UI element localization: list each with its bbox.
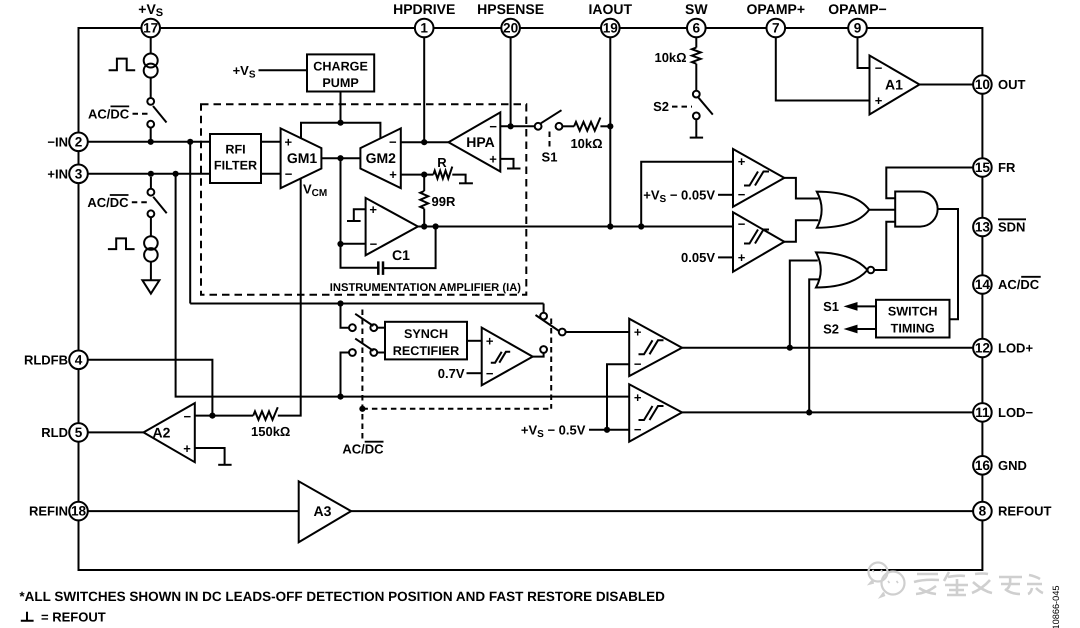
wire OR out to AND	[869, 209, 895, 211]
op-amp A3	[299, 481, 351, 542]
wire A2 - to 150k	[195, 415, 253, 417]
op-amp GM2	[360, 128, 400, 188]
refout symbol at HPA +	[507, 168, 521, 170]
op-amp A2	[144, 403, 195, 462]
svg-text:8: 8	[979, 504, 987, 519]
svg-text:99R: 99R	[432, 194, 456, 209]
svg-text:−: −	[184, 409, 192, 424]
junction C1 - input	[337, 241, 343, 247]
pin 2 -IN	[69, 133, 88, 152]
pin 9 OPAMP-	[848, 19, 867, 38]
wire RLDFB to A2 -	[88, 360, 212, 416]
svg-text:SW: SW	[685, 1, 708, 17]
junction -IN/switch	[148, 139, 154, 145]
wire R node down	[423, 175, 425, 191]
svg-text:AC/DC: AC/DC	[998, 277, 1040, 292]
svg-text:A1: A1	[885, 76, 903, 92]
wire junction down to switch A	[341, 304, 350, 328]
resistor 99R	[420, 191, 428, 209]
junction +IN/sense	[173, 171, 179, 177]
wire NOR top input	[790, 261, 818, 348]
wire A3 out to REFOUT pin	[351, 510, 973, 512]
svg-text:R: R	[437, 155, 447, 170]
control dashed to SPDT	[550, 319, 552, 409]
comparator CMP5 0.7V	[482, 328, 533, 386]
svg-text:9: 9	[854, 21, 862, 36]
wire RLD to A2	[88, 431, 144, 433]
svg-text:6: 6	[693, 21, 701, 36]
pin 14 AC/DC	[973, 275, 992, 294]
svg-text:+: +	[489, 152, 497, 167]
wire GM1 out to GM2 in	[321, 157, 360, 159]
pin 10 OUT	[973, 75, 992, 94]
svg-text:GM1: GM1	[287, 150, 318, 166]
svg-text:OUT: OUT	[998, 77, 1026, 92]
svg-text:CHARGE: CHARGE	[313, 59, 368, 73]
svg-text:FILTER: FILTER	[214, 159, 257, 173]
pin 12 LOD+	[973, 339, 992, 358]
svg-text:+VS − 0.5V: +VS − 0.5V	[521, 422, 586, 440]
svg-text:10kΩ: 10kΩ	[654, 50, 686, 65]
wire A1 out to OUT pin	[920, 84, 974, 86]
pin 15 FR	[973, 158, 992, 177]
junction NOR/LOD- row	[806, 409, 812, 415]
junction +IN/switch	[148, 171, 154, 177]
svg-text:−: −	[489, 119, 497, 134]
svg-text:14: 14	[975, 277, 991, 292]
control dashed vertical at switches	[361, 310, 363, 440]
wire RFI to GM1 +	[261, 141, 281, 143]
wire GM2 - out to HPA	[401, 141, 449, 143]
resistor R	[433, 167, 452, 179]
junction R node	[421, 172, 427, 178]
pin 18 REFIN	[69, 502, 88, 521]
resistor 10k ohm horizontal	[574, 117, 600, 130]
watermark characters	[914, 572, 1043, 595]
junction IAOUT/10k	[607, 123, 613, 129]
svg-text:−: −	[738, 216, 746, 231]
junction A2 - node	[209, 413, 215, 419]
wire RFI to GM1 -	[261, 173, 281, 175]
wire REFIN to A3	[88, 510, 299, 512]
wire 0.7V stub	[467, 372, 482, 374]
junction HPSENSE node	[508, 123, 514, 129]
wire NOR bottom input	[809, 279, 819, 412]
svg-text:−: −	[634, 357, 642, 372]
pulse symbol lower	[108, 238, 135, 249]
wire S2 to refout symbol	[695, 119, 697, 137]
IA dashed boundary	[201, 104, 526, 294]
junction sense row / synch	[337, 300, 343, 306]
junction control dashed	[359, 406, 365, 412]
pin 20 HPSENSE	[501, 19, 520, 38]
svg-text:−: −	[634, 422, 642, 437]
pin 8 REFOUT	[973, 502, 992, 521]
wire switch B to synch box	[377, 352, 385, 354]
IC boundary frame	[79, 28, 983, 570]
wire +Vs-0.05V stub	[718, 194, 733, 196]
down arrow terminal	[142, 280, 159, 293]
svg-text:−: −	[486, 366, 494, 381]
wire IA output row	[418, 226, 733, 228]
wire HPA - to S1	[500, 125, 534, 127]
svg-text:SWITCH: SWITCH	[888, 305, 938, 319]
svg-text:HPSENSE: HPSENSE	[477, 1, 544, 17]
svg-text:GND: GND	[998, 458, 1027, 473]
wire 10k to S2	[695, 64, 697, 91]
svg-text:11: 11	[975, 405, 990, 420]
wire CMP3 out to LOD+ pin	[682, 347, 973, 349]
svg-text:13: 13	[975, 220, 991, 235]
svg-text:+: +	[369, 202, 377, 217]
pin 17 +Vs	[141, 19, 160, 38]
watermark logo	[869, 563, 905, 597]
resistor 150k ohm	[253, 407, 278, 420]
junction comp1 net / IA out row	[638, 223, 644, 229]
svg-text:+: +	[389, 167, 397, 182]
svg-text:−: −	[875, 61, 883, 76]
wire GM mid down to C1 -	[341, 158, 379, 268]
wire +IN electrode line	[88, 173, 210, 175]
svg-text:A2: A2	[153, 424, 171, 440]
wire synch box to CMP5	[467, 340, 482, 342]
svg-text:+: +	[738, 154, 746, 169]
OR gate U2	[817, 192, 869, 228]
svg-text:150kΩ: 150kΩ	[251, 424, 290, 439]
svg-text:OPAMP+: OPAMP+	[747, 1, 805, 17]
svg-text:15: 15	[975, 160, 991, 175]
switch S1	[535, 123, 542, 130]
svg-text:RLD: RLD	[41, 425, 68, 440]
svg-text:S1: S1	[542, 150, 558, 165]
svg-text:RFI: RFI	[225, 143, 245, 157]
switch synch A	[349, 324, 356, 331]
svg-text:+: +	[183, 441, 191, 456]
switch timing box	[876, 300, 950, 338]
pin 3 +IN	[69, 165, 88, 184]
pin 4 RLDFB	[69, 351, 88, 370]
pin 6 SW	[687, 19, 706, 38]
svg-text:17: 17	[143, 21, 158, 36]
wire I1 to switch	[150, 78, 152, 98]
svg-text:−IN: −IN	[47, 134, 68, 149]
refout symbol at R	[459, 182, 473, 184]
svg-text:3: 3	[75, 166, 83, 181]
svg-text:RLDFB: RLDFB	[24, 352, 68, 367]
wire -IN electrode line	[88, 141, 210, 143]
svg-text:OPAMP−: OPAMP−	[828, 1, 886, 17]
wire C1 - input	[341, 243, 366, 245]
switch S2	[693, 91, 700, 98]
svg-text:AC/DC: AC/DC	[342, 442, 384, 457]
refout symbol at A2 +	[218, 464, 231, 466]
svg-text:4: 4	[75, 352, 83, 367]
switch AC/DC upper	[147, 98, 154, 105]
comparator CMP2	[733, 212, 784, 272]
pin 19 IAOUT	[601, 19, 620, 38]
svg-text:REFIN: REFIN	[29, 504, 68, 519]
svg-text:C1: C1	[392, 247, 410, 263]
junction +IN sense row	[337, 394, 343, 400]
refout symbol at S2	[690, 137, 703, 139]
junction bias net	[604, 427, 610, 433]
op-amp C1 integrator	[366, 198, 418, 255]
wire comp1 + input network	[641, 162, 733, 227]
svg-text:10: 10	[975, 77, 990, 92]
svg-text:16: 16	[975, 458, 991, 473]
svg-text:2: 2	[75, 134, 83, 149]
switch AC/DC lower	[148, 189, 155, 196]
svg-text:5: 5	[75, 425, 83, 440]
wire IAOUT vertical	[609, 37, 611, 226]
wire bias to CMP3 -	[607, 364, 629, 430]
wire R to refout symbol	[452, 175, 465, 184]
junction GM mid	[337, 155, 343, 161]
svg-text:FR: FR	[998, 160, 1016, 175]
arrow S1	[857, 305, 876, 307]
comparator CMP1	[733, 149, 784, 207]
wire I2 to arrow	[150, 262, 152, 281]
svg-text:+: +	[738, 250, 746, 265]
control dashed horizontal	[362, 408, 551, 410]
wire +IN sense vertical	[176, 174, 630, 397]
charge pump box	[307, 54, 374, 91]
svg-text:AC/DC: AC/DC	[88, 106, 130, 121]
svg-text:HPDRIVE: HPDRIVE	[393, 1, 455, 17]
wire pin17 to current source I1	[150, 37, 152, 53]
svg-text:+: +	[285, 134, 293, 149]
RFI filter box	[210, 134, 261, 183]
junction NOR/LOD+ row	[787, 345, 793, 351]
pin 7 OPAMP+	[767, 19, 786, 38]
svg-text:10866-045: 10866-045	[1051, 586, 1061, 628]
svg-text:+: +	[875, 93, 883, 108]
svg-text:19: 19	[603, 21, 619, 36]
junction HPDRIVE node	[421, 139, 427, 145]
junction capacitor/C1 out	[433, 223, 439, 229]
svg-text:SYNCH: SYNCH	[404, 327, 448, 341]
svg-text:AC/DC: AC/DC	[87, 195, 129, 210]
svg-text:18: 18	[71, 504, 87, 519]
svg-text:+: +	[634, 325, 642, 340]
op-amp A1	[870, 56, 920, 115]
svg-text:20: 20	[503, 21, 518, 36]
AND gate U3	[895, 192, 937, 227]
wire GM2 + out to R	[401, 174, 434, 176]
wire +Vs to charge pump	[259, 69, 308, 71]
wire A2 + to refout symbol	[195, 448, 225, 465]
svg-text:1: 1	[420, 21, 428, 36]
svg-text:7: 7	[772, 21, 780, 36]
capacitor C1	[378, 261, 383, 275]
pin 11 LOD-	[973, 403, 992, 422]
wire CMP1 out to OR	[784, 178, 818, 199]
wire SW pin down	[695, 37, 697, 47]
wire +Vs-0.5V to CMP4 -	[589, 429, 629, 431]
pin 1 HPDRIVE	[415, 19, 434, 38]
junction IAOUT/IA out row	[607, 223, 613, 229]
wire NOR out to AND input	[875, 222, 896, 270]
svg-text:LOD+: LOD+	[998, 341, 1033, 356]
wire switch to node -IN	[150, 128, 152, 142]
svg-text:INSTRUMENTATION AMPLIFIER (IA): INSTRUMENTATION AMPLIFIER (IA)	[330, 282, 521, 294]
NOR gate U4	[816, 252, 868, 287]
op-amp GM1	[281, 128, 322, 188]
svg-text:HPA: HPA	[466, 134, 495, 150]
wire HPSENSE vertical	[510, 37, 512, 126]
pin 16 GND	[973, 456, 992, 475]
refout symbol at C1 +	[347, 220, 361, 222]
svg-text:+: +	[486, 333, 494, 348]
wire node to lower switch	[150, 177, 152, 189]
svg-text:+VS − 0.05V: +VS − 0.05V	[643, 187, 715, 205]
svg-text:−: −	[738, 187, 746, 202]
pin 13 SDN	[973, 218, 992, 237]
wire capacitor to C1 out	[383, 227, 436, 269]
svg-text:SDN: SDN	[998, 220, 1025, 235]
wire charge pump to IA	[340, 92, 342, 123]
svg-text:+IN: +IN	[47, 166, 68, 181]
wire OPAMP+ to A1 +	[776, 37, 870, 100]
wire C1 + input to refout symbol	[354, 209, 366, 221]
svg-text:TIMING: TIMING	[891, 322, 935, 336]
current source I2	[144, 236, 158, 250]
wire switch A to synch box	[377, 327, 385, 329]
svg-text:−: −	[285, 166, 293, 181]
wire SPDT common to CMP3 +	[566, 331, 630, 333]
svg-text:IAOUT: IAOUT	[589, 1, 633, 17]
svg-text:PUMP: PUMP	[322, 76, 358, 90]
wire switch B to +IN sense row	[341, 353, 350, 397]
svg-text:S2: S2	[653, 99, 669, 114]
label S1 near switch	[549, 132, 551, 149]
svg-text:−: −	[389, 134, 397, 149]
wire switch to current source I2	[150, 217, 152, 236]
comparator CMP4 LOD-	[629, 384, 682, 441]
wire 99R to IA out	[423, 209, 425, 227]
wire OPAMP- to A1 -	[858, 37, 870, 68]
svg-text:0.7V: 0.7V	[438, 366, 465, 381]
wire FR to AND input	[886, 168, 973, 199]
wire CMP4 out to LOD- pin	[682, 411, 973, 413]
pin 5 RLD	[69, 423, 88, 442]
pulse symbol upper	[109, 59, 136, 71]
wire 0.05V stub	[718, 256, 733, 258]
wire 150k to VCM line	[278, 179, 301, 416]
svg-text:GM2: GM2	[366, 150, 397, 166]
junction -IN/sense	[187, 139, 193, 145]
wire 10k to IAOUT line	[600, 125, 610, 127]
svg-text:12: 12	[975, 341, 991, 356]
junction top link / charge pump	[337, 120, 343, 126]
svg-text:0.05V: 0.05V	[681, 250, 715, 265]
wire -IN sense row	[190, 303, 543, 305]
svg-text:*ALL SWITCHES SHOWN IN DC LEAD: *ALL SWITCHES SHOWN IN DC LEADS-OFF DETE…	[19, 589, 665, 604]
comparator CMP3 LOD+	[629, 319, 682, 376]
current source I1	[144, 54, 158, 68]
op-amp HPA	[449, 112, 501, 171]
junction 99R bottom	[421, 223, 427, 229]
wire GM1-GM2 top link	[301, 123, 380, 139]
svg-text:+: +	[634, 390, 642, 405]
wire HPDRIVE vertical	[423, 37, 425, 142]
switch synch B	[349, 349, 356, 356]
svg-text:A3: A3	[314, 503, 332, 519]
svg-text:S1: S1	[823, 299, 839, 314]
svg-text:= REFOUT: = REFOUT	[41, 610, 106, 625]
svg-text:REFOUT: REFOUT	[998, 504, 1052, 519]
wire sense row to SPDT top	[543, 304, 545, 313]
switch SPDT fast restore	[540, 313, 547, 320]
svg-text:LOD−: LOD−	[998, 405, 1033, 420]
wire HPA + to refout symbol	[500, 159, 513, 169]
wire CMP2 out to OR	[784, 220, 818, 242]
wire -IN sense vertical	[189, 142, 191, 304]
svg-text:10kΩ: 10kΩ	[570, 136, 602, 151]
svg-text:RECTIFIER: RECTIFIER	[393, 344, 459, 358]
arrow S2	[857, 328, 876, 330]
wire S1 to 10k	[562, 125, 574, 127]
resistor 10k ohm vertical	[692, 48, 701, 64]
synch rectifier box	[385, 322, 467, 360]
wire AND out to switch timing	[938, 209, 958, 319]
svg-text:S2: S2	[823, 322, 839, 337]
wire CMP5 out to SPDT	[533, 353, 544, 357]
svg-text:−: −	[370, 236, 378, 251]
footnote refout symbol	[21, 612, 34, 621]
